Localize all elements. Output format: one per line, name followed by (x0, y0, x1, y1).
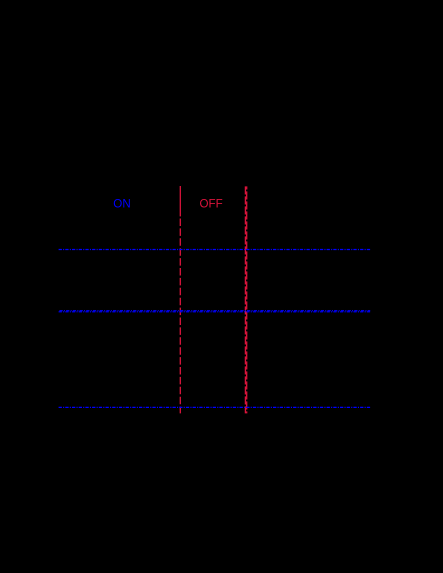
red vline pair right x=246.65 (246, 186, 248, 413)
svg-text:OFF: OFF (200, 197, 223, 210)
red vline x=180 solid top segment (179, 186, 181, 216)
blue dashdot hline y=249.5 (59, 249, 371, 251)
red vline x=180 dashed segment (179, 219, 181, 414)
svg-text:ON: ON (113, 197, 130, 210)
red vline pair left x=245.45 (244, 186, 246, 413)
blue dashdot hline pair lower y=311.8 (59, 311, 371, 313)
blue dashdot hline pair upper y=310.7 (59, 310, 371, 312)
blue dashdot hline y=407.4 (59, 406, 371, 408)
